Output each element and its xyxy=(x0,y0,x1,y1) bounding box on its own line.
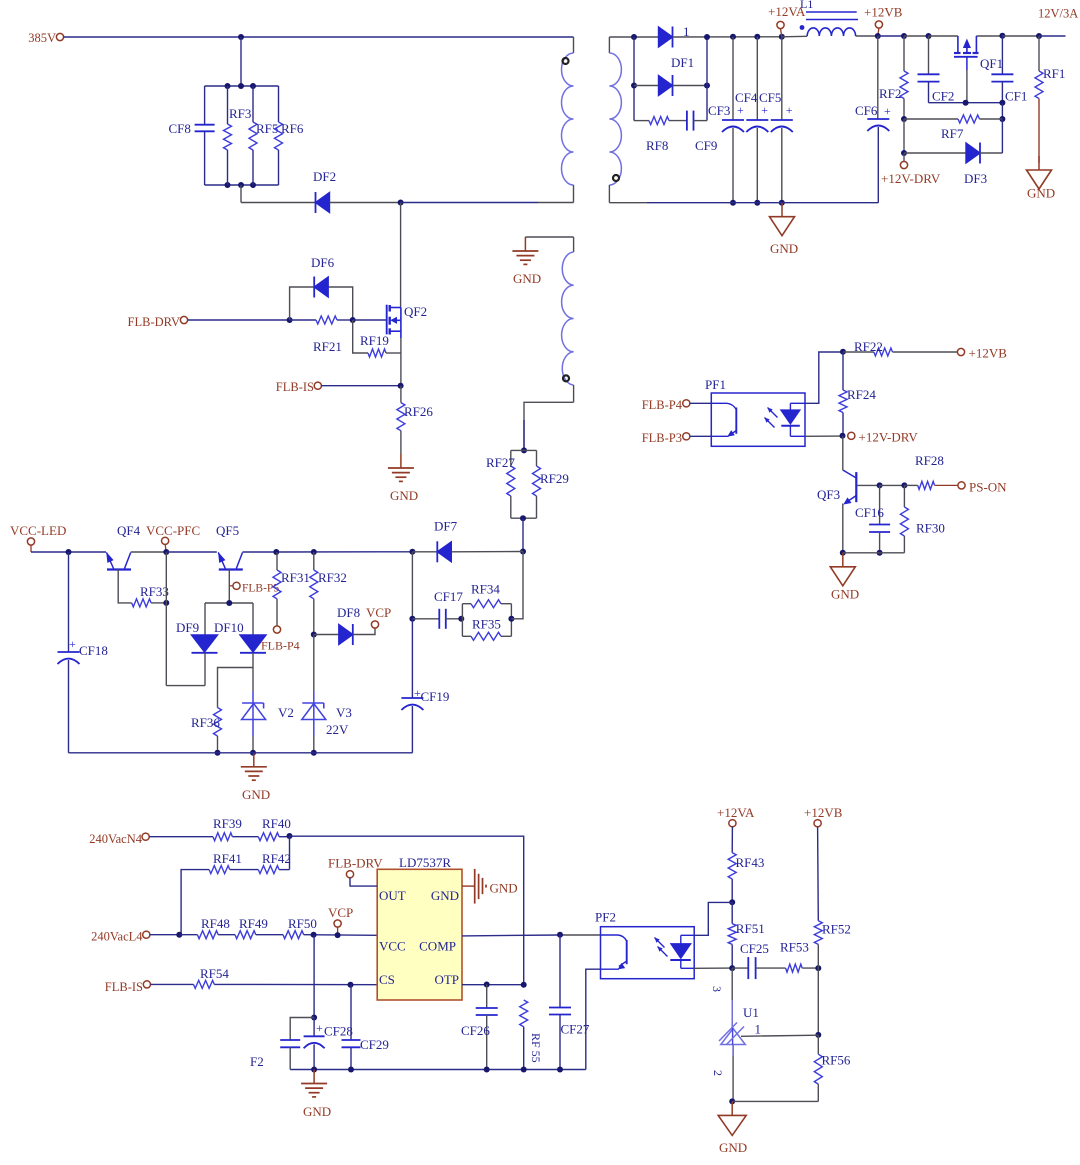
wire FLB-P4 to PF1 xyxy=(690,402,711,404)
terminal PS-ON xyxy=(958,482,965,489)
svg-text:FLB-P4: FLB-P4 xyxy=(261,639,300,653)
svg-text:DF10: DF10 xyxy=(214,620,244,635)
svg-text:+12VB: +12VB xyxy=(864,5,903,20)
junction RF7 left xyxy=(901,116,907,122)
svg-text:CF17: CF17 xyxy=(434,589,463,604)
junction DF1 cathode top xyxy=(704,34,710,40)
wire 240VacN4 xyxy=(149,836,213,838)
resistor RF8 xyxy=(649,117,669,125)
svg-text:RF48: RF48 xyxy=(201,916,230,931)
svg-text:CF16: CF16 xyxy=(855,505,884,520)
snubber network box top edge xyxy=(205,85,279,87)
wire FLB-DRV xyxy=(188,319,290,321)
svg-text:COMP: COMP xyxy=(419,939,456,954)
wire CF17 left xyxy=(412,618,439,620)
svg-text:RF 55: RF 55 xyxy=(529,1033,543,1063)
wire aux bottom xyxy=(524,402,574,450)
junction V2 bottom xyxy=(250,750,256,756)
resistor RF43 xyxy=(731,827,733,853)
svg-text:DF2: DF2 xyxy=(313,169,336,184)
junction CF3 bottom xyxy=(730,200,736,206)
terminal +12VA bottom xyxy=(729,820,736,827)
terminal FLB-DRV xyxy=(180,316,187,323)
wire rail RF31 RF32 xyxy=(276,551,412,553)
wire QF5 collector rail xyxy=(243,551,277,553)
resistor RF31 xyxy=(276,552,278,570)
wire base row xyxy=(880,484,905,486)
svg-text:RF6: RF6 xyxy=(281,121,304,136)
wire CF9 to cathode rail xyxy=(694,120,708,122)
resistor RF55 xyxy=(520,1000,528,1027)
svg-text:CF1: CF1 xyxy=(1005,89,1027,104)
svg-text:RF31: RF31 xyxy=(281,570,310,585)
svg-text:+: + xyxy=(737,103,744,117)
capacitor CF9 xyxy=(686,111,688,131)
junction snubber bottom mid xyxy=(238,182,244,188)
ground GND QF3 xyxy=(842,553,844,567)
svg-text:22V: 22V xyxy=(326,722,349,737)
capacitor CF16 xyxy=(879,485,881,524)
resistor RF53 xyxy=(786,964,803,972)
svg-text:CF8: CF8 xyxy=(169,121,191,136)
svg-text:GND: GND xyxy=(242,787,270,802)
svg-text:V2: V2 xyxy=(278,705,294,720)
wire RF42-RF41 xyxy=(230,869,258,871)
resistor RF42 xyxy=(279,869,289,871)
resistor RF5 xyxy=(252,86,254,122)
svg-text:RF2: RF2 xyxy=(879,86,901,101)
svg-text:RF3: RF3 xyxy=(229,106,251,121)
junction CF3 top xyxy=(730,34,736,40)
capacitor CF27 xyxy=(559,935,561,1008)
junction QF1 gate xyxy=(963,100,969,106)
wire U1 cathode xyxy=(731,968,733,1027)
wire RF52 to ref node xyxy=(817,968,819,1035)
junction CF16 top xyxy=(877,482,883,488)
svg-text:RF52: RF52 xyxy=(822,922,851,937)
PF2 led xyxy=(681,934,694,936)
svg-text:RF7: RF7 xyxy=(941,126,964,141)
svg-text:GND: GND xyxy=(831,587,859,602)
wire +12VB rail xyxy=(878,35,904,37)
junction RF22 node xyxy=(840,349,846,355)
svg-text:DF8: DF8 xyxy=(337,605,360,620)
junction QF5 base node xyxy=(226,600,232,606)
diode DF1 second xyxy=(659,76,673,96)
svg-text:+: + xyxy=(884,104,891,118)
svg-text:RF39: RF39 xyxy=(213,816,242,831)
wire VCC-LED rail xyxy=(31,551,106,553)
diode DF7 xyxy=(412,551,437,553)
ground GND bottom xyxy=(313,1070,315,1084)
transistor QF3 npn xyxy=(855,472,857,502)
junction CF29 bottom xyxy=(348,1067,354,1073)
capacitor CF3 xyxy=(732,37,734,120)
resistor RF6 xyxy=(278,86,280,122)
svg-text:U1: U1 xyxy=(743,1005,759,1020)
junction CF1 top xyxy=(999,33,1005,39)
wire DF9-DF10 top edge xyxy=(205,602,253,604)
wire DF2 anode side xyxy=(241,202,316,204)
svg-text:RF40: RF40 xyxy=(262,816,291,831)
svg-text:RF43: RF43 xyxy=(736,855,765,870)
diode DF10 xyxy=(252,603,254,635)
junction CF5 bottom xyxy=(779,200,785,206)
junction RF55 top xyxy=(521,982,527,988)
junction RF29 bottom xyxy=(520,515,526,521)
resistor RF49 xyxy=(235,931,256,939)
terminal FLB-IS bottom xyxy=(143,981,150,988)
wire branch to RF36 xyxy=(218,668,254,708)
wire RF53 to RF52 xyxy=(802,967,818,969)
PF2 light arrows xyxy=(658,947,668,957)
terminal +12V-DRV xyxy=(903,153,905,162)
zener V2 xyxy=(252,668,254,692)
shunt regulator U1 xyxy=(721,1029,746,1045)
junction DF1b anode xyxy=(631,83,637,89)
svg-text:RF32: RF32 xyxy=(318,570,347,585)
wire to DF7 node xyxy=(522,518,524,551)
resistor RF34 xyxy=(461,604,463,637)
wire VCC-PFC vertical xyxy=(165,552,167,686)
svg-text:RF29: RF29 xyxy=(540,471,569,486)
svg-text:RF51: RF51 xyxy=(736,921,765,936)
resistor RF7 xyxy=(904,118,958,120)
wire QF3 emitter down xyxy=(842,504,844,553)
resistor RF24 xyxy=(842,352,844,390)
svg-text:FLB-P3: FLB-P3 xyxy=(642,431,682,445)
wire QF3 gnd bus xyxy=(843,552,905,554)
resistor RF29 xyxy=(536,450,538,466)
wire FLB-IS bottom xyxy=(151,983,194,985)
wire U1 anode xyxy=(732,1045,734,1102)
wire CF28 branch xyxy=(313,935,315,1018)
junction U1 ref node xyxy=(815,1032,821,1038)
wire OTP net xyxy=(462,984,524,986)
svg-text:GND: GND xyxy=(719,1140,747,1155)
resistor RF1 xyxy=(1038,36,1040,71)
wire QF2 drain vertical xyxy=(400,203,402,308)
junction RF7 right xyxy=(999,116,1005,122)
IC U-LD7537R xyxy=(377,869,462,1000)
wire RF39-RF40 xyxy=(232,836,258,838)
ground GND QF2 source xyxy=(400,454,402,468)
wire 385V bus xyxy=(64,36,574,38)
svg-text:PS-ON: PS-ON xyxy=(969,480,1007,495)
wire QF1 top segment xyxy=(976,35,1002,37)
junction snubber top left xyxy=(225,83,231,89)
ground GND secondary xyxy=(781,203,783,217)
junction RF43 bottom xyxy=(729,899,735,905)
svg-text:+12VB: +12VB xyxy=(969,346,1008,361)
svg-text:RF22: RF22 xyxy=(854,339,883,354)
svg-text:FLB-P4: FLB-P4 xyxy=(642,398,683,412)
junction CF2 top xyxy=(926,33,932,39)
svg-text:RF30: RF30 xyxy=(916,521,945,536)
diode DF1 first xyxy=(659,27,673,47)
wire PF2 led cathode xyxy=(694,967,732,969)
junction on 385V bus xyxy=(238,34,244,40)
resistor RF36 xyxy=(214,708,222,737)
junction CF1 bottom xyxy=(999,100,1005,106)
capacitor CF1 xyxy=(1001,36,1003,74)
ground GND aux winding xyxy=(524,237,526,251)
svg-text:12V/3A: 12V/3A xyxy=(1038,7,1078,21)
svg-text:385V: 385V xyxy=(28,31,56,45)
svg-text:RF8: RF8 xyxy=(646,138,668,153)
wire GND pin xyxy=(462,885,474,887)
resistor RF48 xyxy=(197,931,218,939)
svg-text:+12V-DRV: +12V-DRV xyxy=(881,171,941,186)
wire DF6 loop xyxy=(290,287,353,320)
svg-text:RF54: RF54 xyxy=(200,966,229,981)
terminal +12VA xyxy=(777,21,784,28)
wire to 12V/3A output xyxy=(1039,35,1066,37)
terminal 240VacL4 xyxy=(143,931,150,938)
svg-text:VCC: VCC xyxy=(379,939,406,954)
junction FLB-IS node xyxy=(398,383,404,389)
resistor RF30 xyxy=(903,485,905,507)
junction RF52 mid xyxy=(815,965,821,971)
junction CF29 top xyxy=(348,982,354,988)
svg-text:RF27: RF27 xyxy=(486,455,515,470)
junction DF7 cathode node xyxy=(520,549,526,555)
wire RF43 node to PF2 led xyxy=(694,902,732,935)
junction RF35 box right xyxy=(508,616,514,622)
junction QF3 gnd node xyxy=(840,550,846,556)
svg-text:+: + xyxy=(316,1021,323,1035)
svg-text:CF5: CF5 xyxy=(759,90,781,105)
svg-text:QF2: QF2 xyxy=(404,304,427,319)
svg-text:GND: GND xyxy=(1027,186,1055,201)
PF1 phototransistor xyxy=(711,402,727,404)
terminal FLB-DRV bottom xyxy=(346,871,353,878)
junction CF16 bottom xyxy=(877,550,883,556)
wire drain node to primary xyxy=(401,202,538,204)
inductor aux winding xyxy=(573,237,575,252)
resistor RF35 xyxy=(510,604,512,637)
wire QF1 gate net xyxy=(929,102,1003,104)
diode DF8 xyxy=(339,625,353,645)
svg-text:240VacN4: 240VacN4 xyxy=(89,832,143,846)
svg-text:FLB-DRV: FLB-DRV xyxy=(128,315,180,329)
wire snubber RF8 left xyxy=(634,120,649,122)
wire RF49-RF50 xyxy=(256,934,283,936)
svg-text:1: 1 xyxy=(755,1022,762,1037)
diode DF3 xyxy=(966,143,980,163)
wire RF2 node down xyxy=(903,119,905,153)
svg-text:RF28: RF28 xyxy=(915,453,944,468)
resistor RF50 xyxy=(283,931,304,939)
junction CF26 top xyxy=(484,982,490,988)
junction V3 bottom xyxy=(311,750,317,756)
svg-text:2: 2 xyxy=(711,1070,725,1076)
svg-text:QF3: QF3 xyxy=(817,487,840,502)
wire DF2 to drain node xyxy=(330,202,401,204)
svg-text:CF18: CF18 xyxy=(79,643,108,658)
wire RF26 to ground xyxy=(400,431,402,454)
svg-text:QF1: QF1 xyxy=(980,56,1003,71)
svg-text:LD7537R: LD7537R xyxy=(399,855,451,870)
svg-text:RF56: RF56 xyxy=(822,1053,851,1068)
terminal VCC-PFC xyxy=(162,537,169,544)
svg-text:DF7: DF7 xyxy=(434,519,458,534)
wire QF4 base xyxy=(118,570,132,603)
svg-text:RF41: RF41 xyxy=(213,851,242,866)
resistor RF40 xyxy=(258,833,279,841)
transformer T1 primary winding xyxy=(573,37,575,53)
svg-text:+: + xyxy=(69,637,76,651)
terminal 385V xyxy=(56,33,63,40)
terminal +12VB right xyxy=(957,348,964,355)
ground GND IC xyxy=(474,869,476,904)
wire RF27-RF29 bottom edge xyxy=(511,517,537,519)
svg-text:CF4: CF4 xyxy=(735,90,758,105)
wire 240VacL4 xyxy=(150,934,179,936)
svg-text:GND: GND xyxy=(513,271,541,286)
wire COMP net xyxy=(462,934,560,937)
diode DF9 xyxy=(204,603,206,635)
wire DF3 cathode up xyxy=(980,152,1002,154)
svg-text:CF9: CF9 xyxy=(695,138,717,153)
junction CF4 top xyxy=(754,34,760,40)
junction snubber bottom right xyxy=(250,182,256,188)
resistor RF41 xyxy=(209,866,230,874)
capacitor CF5 xyxy=(781,37,783,120)
junction CF5 top xyxy=(779,34,785,40)
junction RF32 top xyxy=(311,549,317,555)
svg-text:PF2: PF2 xyxy=(595,910,616,925)
capacitor CF2 xyxy=(928,36,930,74)
capacitor CF8 xyxy=(204,86,206,124)
terminal +12VB bottom xyxy=(814,820,821,827)
svg-text:FLB-IS: FLB-IS xyxy=(105,980,143,994)
capacitor CF17 xyxy=(438,609,440,629)
svg-text:240VacL4: 240VacL4 xyxy=(91,930,143,944)
wire secondary top to DF1 xyxy=(609,36,658,38)
junction DF8 node xyxy=(311,632,317,638)
transistor QF5 pnp xyxy=(219,568,243,570)
junction DF7 anode node xyxy=(409,549,415,555)
svg-text:VCP: VCP xyxy=(328,905,353,920)
ground GND U1 xyxy=(731,1101,733,1115)
svg-text:VCP: VCP xyxy=(366,605,391,620)
svg-text:CF29: CF29 xyxy=(360,1037,389,1052)
svg-text:OTP: OTP xyxy=(434,972,459,987)
resistor RF21 xyxy=(290,319,316,321)
terminal +12V-DRV right xyxy=(848,432,855,439)
junction RF31 top xyxy=(273,549,279,555)
junction CF28 bottom xyxy=(311,1067,317,1073)
svg-text:FLB-IS: FLB-IS xyxy=(276,380,314,394)
junction RF55 bottom xyxy=(521,1067,527,1073)
PF2 phototransistor xyxy=(601,934,619,936)
capacitor CF28 xyxy=(313,1018,315,1037)
wire RF54 to CS xyxy=(214,983,377,985)
terminal VCC-LED xyxy=(27,538,34,545)
svg-text:GND: GND xyxy=(490,881,518,896)
wire RF19 loop xyxy=(353,320,368,353)
PF1 led xyxy=(790,402,805,404)
svg-text:FLB-P5: FLB-P5 xyxy=(242,583,279,595)
capacitor CF6 xyxy=(877,36,879,119)
terminal +12VB xyxy=(875,21,882,28)
junction DF1b cathode xyxy=(704,83,710,89)
svg-text:RF33: RF33 xyxy=(140,584,169,599)
wire RF48-RF49 xyxy=(218,934,235,936)
junction +12VB node xyxy=(875,33,881,39)
wire RF27-RF29 top edge xyxy=(511,449,537,451)
wire rail QF4-QF5 xyxy=(166,551,217,553)
wire DF1 branch vertical left xyxy=(633,37,635,121)
svg-text:VCC-LED: VCC-LED xyxy=(10,523,66,538)
svg-text:CS: CS xyxy=(379,972,395,987)
svg-text:OUT: OUT xyxy=(379,888,406,903)
wire DF8 to VCP xyxy=(353,628,375,634)
junction RF21 right xyxy=(350,317,356,323)
svg-text:VCC-PFC: VCC-PFC xyxy=(146,523,200,538)
junction drain node xyxy=(398,200,404,206)
wire U1 ref pin xyxy=(741,1035,818,1036)
capacitor CF29 xyxy=(350,985,352,1040)
junction RF30 top xyxy=(901,482,907,488)
resistor RF19 xyxy=(368,349,386,357)
terminal 240VacN4 xyxy=(142,833,149,840)
wire CF25 to RF53 xyxy=(756,967,786,969)
snubber network box bottom edge xyxy=(205,184,279,186)
wire snubber to DF2 row xyxy=(240,185,242,203)
svg-text:CF2: CF2 xyxy=(932,89,954,104)
svg-text:RF50: RF50 xyxy=(288,916,317,931)
junction secondary branch xyxy=(631,34,637,40)
wire DF1 cathode to cap bank xyxy=(673,36,783,38)
resistor RF22 xyxy=(843,351,874,353)
junction RF34 box left xyxy=(458,616,464,622)
wire CF1 to RF7 row xyxy=(1001,103,1003,119)
primary polarity dot xyxy=(563,58,569,64)
wire QF2 source xyxy=(400,338,402,386)
wire QF5 base xyxy=(228,570,230,604)
junction RF21 left xyxy=(287,317,293,323)
wire DF7 cathode xyxy=(451,551,523,553)
wire L1 to +12VB xyxy=(856,35,878,37)
svg-text:V3: V3 xyxy=(336,705,352,720)
junction RF27 top xyxy=(521,447,527,453)
resistor RF51 xyxy=(728,924,736,945)
svg-text:L1: L1 xyxy=(800,0,813,11)
svg-text:CF6: CF6 xyxy=(855,103,878,118)
svg-text:GND: GND xyxy=(431,888,459,903)
svg-text:CF19: CF19 xyxy=(421,689,450,704)
wire 385V bus to snubber xyxy=(240,37,242,86)
wire DF1b cathode xyxy=(673,85,708,87)
svg-text:+: + xyxy=(761,103,768,117)
diode DF6 xyxy=(314,277,328,297)
junction CF4 bottom xyxy=(754,200,760,206)
svg-text:GND: GND xyxy=(390,488,418,503)
terminal FLB-P4 xyxy=(683,400,690,407)
svg-text:CF26: CF26 xyxy=(461,1023,490,1038)
wire RF8 to CF9 xyxy=(669,120,687,122)
capacitor CF18 xyxy=(68,552,70,652)
svg-text:FLB-DRV: FLB-DRV xyxy=(328,856,383,871)
svg-text:CF25: CF25 xyxy=(740,941,769,956)
junction RF36 bottom xyxy=(215,750,221,756)
svg-text:RF21: RF21 xyxy=(313,339,342,354)
capacitor F2 branch xyxy=(290,1018,314,1041)
junction CF26 bottom xyxy=(484,1067,490,1073)
wire aux top xyxy=(525,236,573,238)
